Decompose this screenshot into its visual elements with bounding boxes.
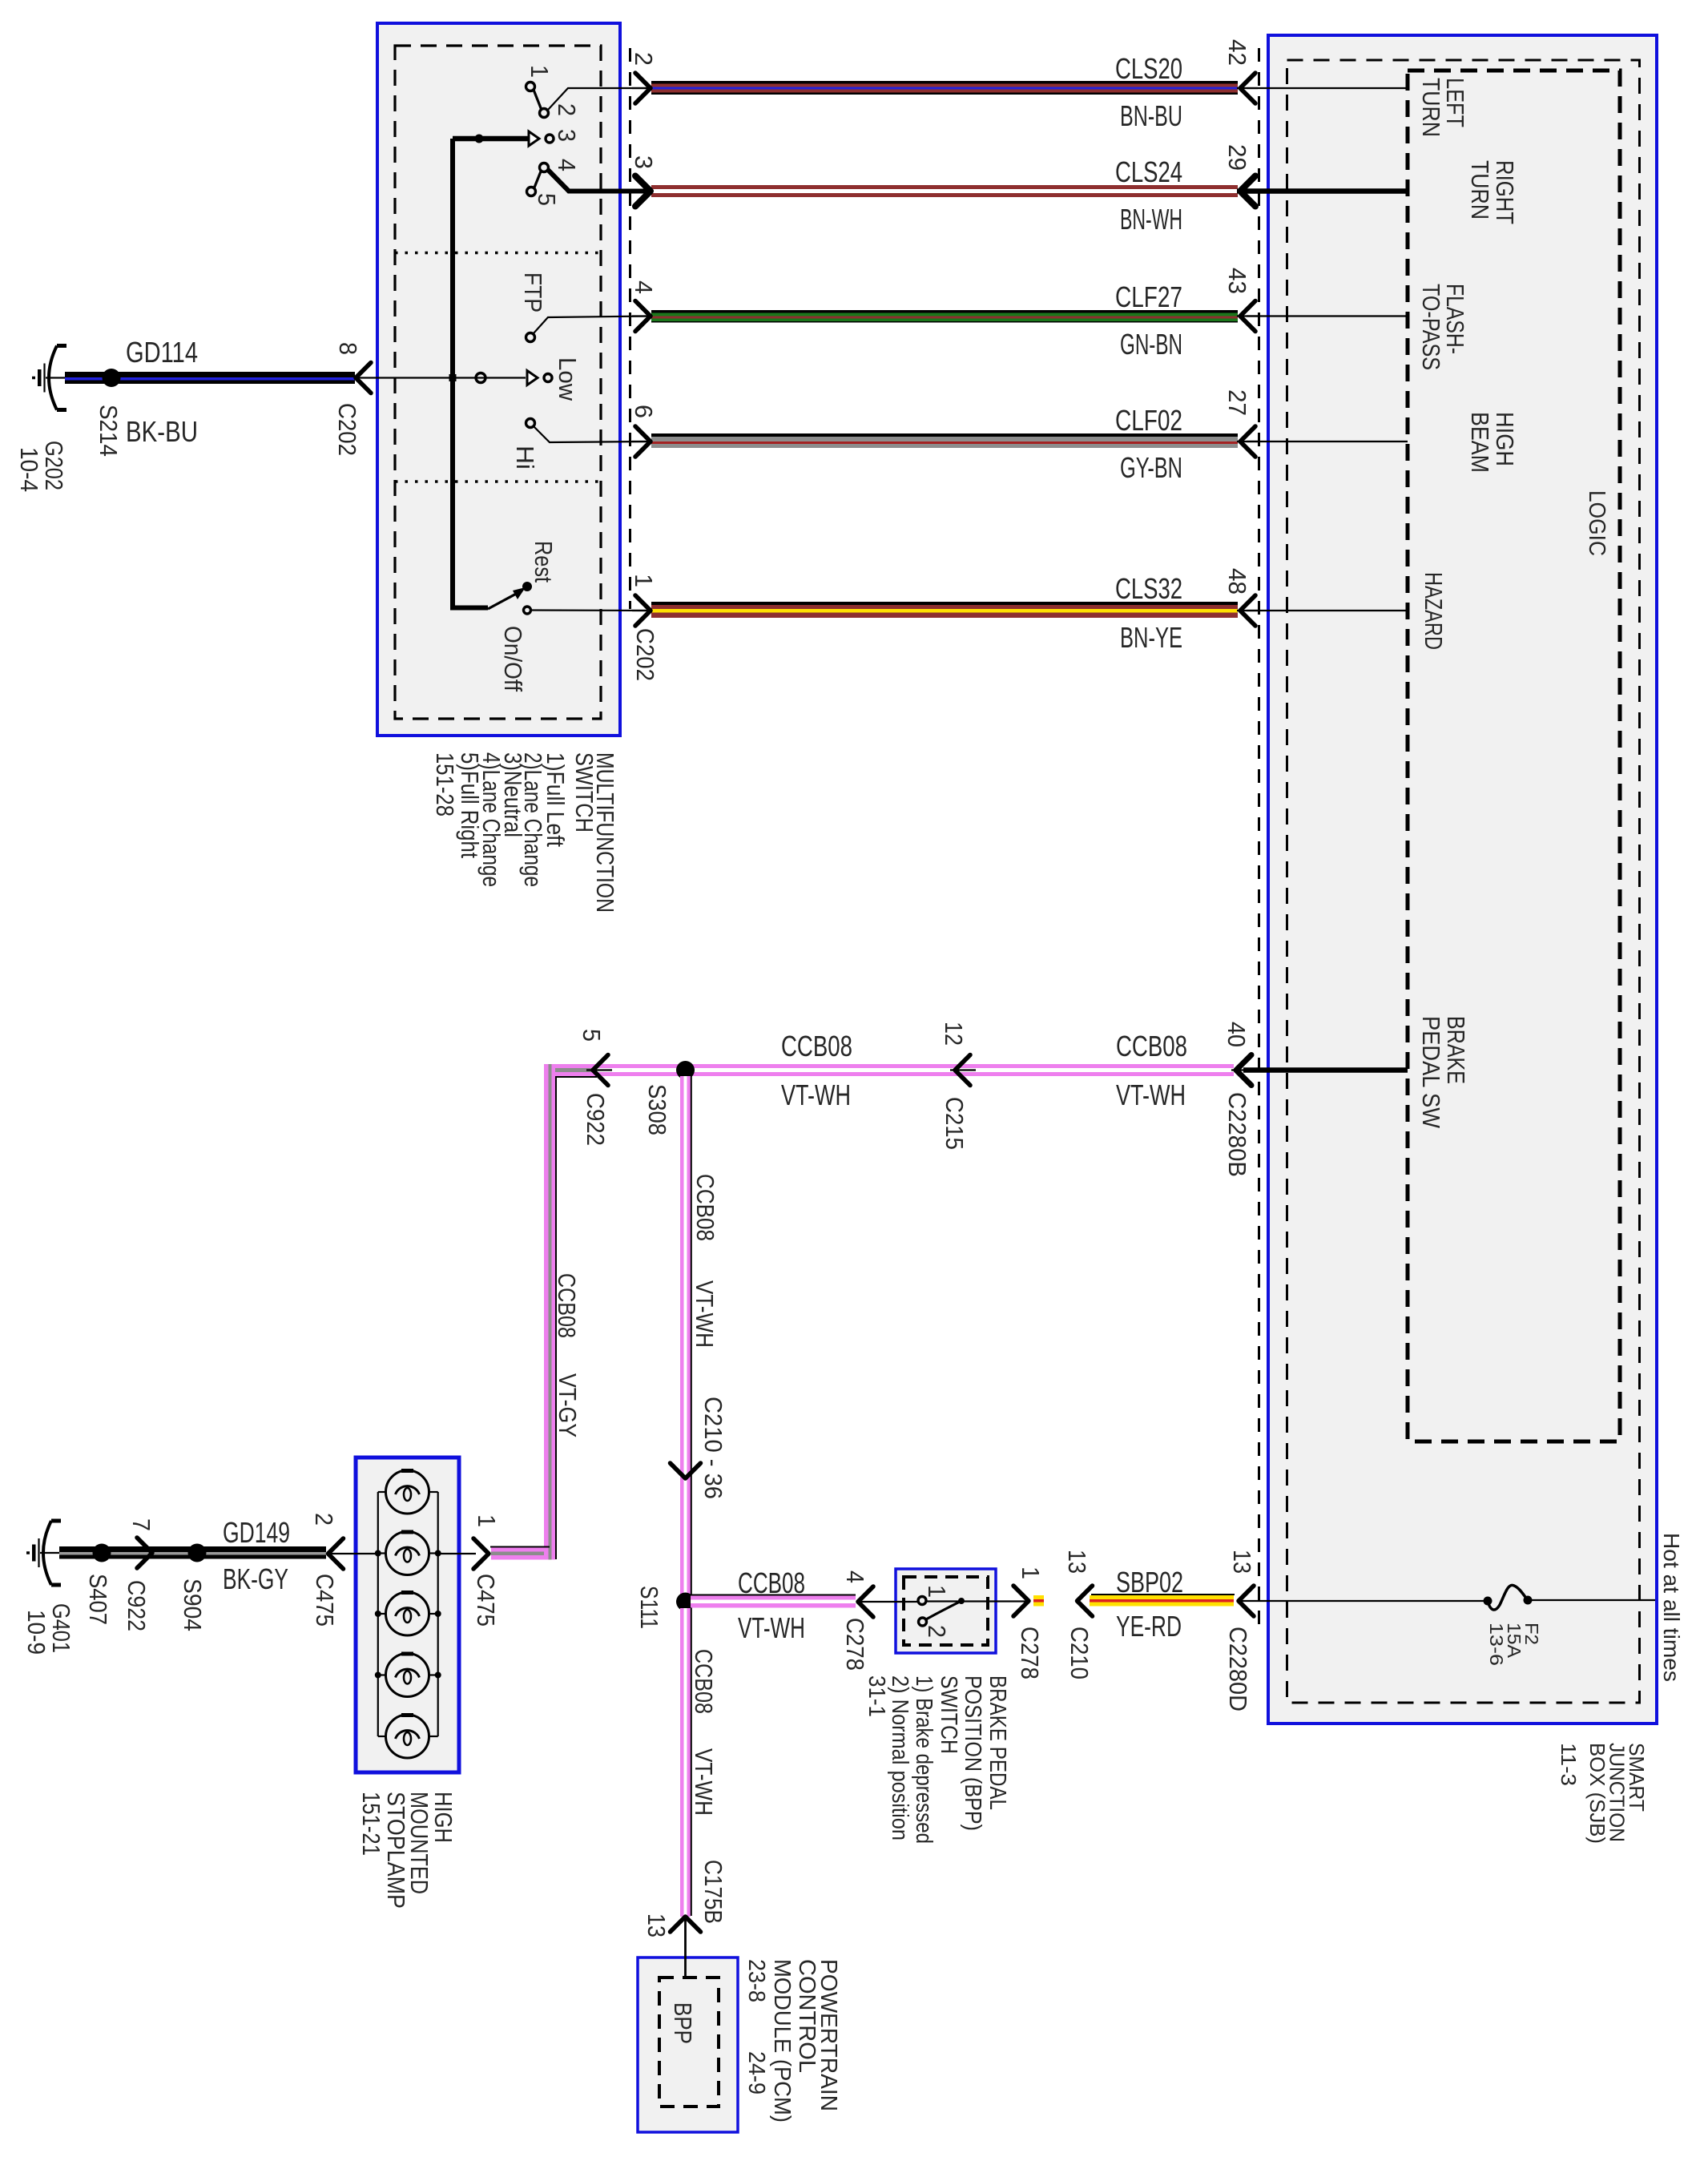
splice S214 [103, 369, 121, 387]
svg-text:1: 1 [1017, 1566, 1045, 1579]
svg-text:1: 1 [923, 1585, 951, 1598]
label C210 - 36 [699, 1397, 727, 1499]
Hi contact [526, 419, 535, 428]
wire from FTP contact to pin 4 [534, 316, 651, 334]
junction dot on contact 3 line [475, 135, 484, 143]
low beam pivot wire from pin 8 [370, 377, 526, 378]
splice S904 [188, 1544, 207, 1562]
svg-text:1) Brake depressed: 1) Brake depressed [911, 1675, 937, 1844]
BPP contact 1 label [923, 1585, 951, 1598]
FTP label [519, 272, 547, 312]
label Hi [511, 446, 539, 470]
svg-text:13-6: 13-6 [1486, 1623, 1507, 1666]
connector C202 pin 2 arrow [632, 73, 652, 103]
svg-text:BPP: BPP [669, 2002, 697, 2044]
pin 13 label (C175B) [643, 1913, 671, 1937]
vertical wire CCB08 VT-WH from S308 to S111 [680, 1076, 691, 1595]
stoplamp caption [357, 1792, 457, 1909]
PCM dashed outline [659, 1978, 719, 2107]
connector C215 pin 12 arrow [950, 1055, 976, 1086]
bus junction dots [375, 1550, 441, 1557]
label CLS32 [1115, 572, 1182, 605]
svg-text:C922: C922 [582, 1093, 610, 1146]
label BK-BU [126, 415, 198, 448]
FTP contact [526, 333, 535, 342]
connector C922 pin 5 arrow [586, 1055, 612, 1086]
svg-text:TURN: TURN [1466, 160, 1494, 220]
svg-text:Hot at all times: Hot at all times [1659, 1533, 1684, 1682]
label FLASH-TO-PASS [1417, 284, 1469, 370]
BPP switch dashed outline [904, 1577, 988, 1645]
connector C210 label [1065, 1627, 1094, 1679]
bus junction dots [375, 1611, 441, 1617]
connector C922 label (pin 5) [582, 1093, 610, 1146]
svg-text:CCB08: CCB08 [738, 1566, 805, 1599]
PCM caption [743, 1959, 841, 2123]
svg-text:BEAM: BEAM [1466, 412, 1494, 473]
bus junction dots [375, 1672, 441, 1679]
connector C2280 pin 29 arrow [1237, 176, 1258, 207]
svg-text:1: 1 [473, 1514, 501, 1527]
label VT-WH (S308 vertical) [691, 1280, 719, 1348]
svg-text:C475: C475 [472, 1574, 500, 1627]
pin 42 label [1223, 39, 1251, 66]
black edge along vertical VT-GY wire [555, 1076, 557, 1559]
connector C278 label (right) [1016, 1627, 1044, 1679]
svg-text:CLS24: CLS24 [1115, 155, 1182, 188]
svg-text:S308: S308 [643, 1084, 671, 1135]
contact 3 label [553, 129, 581, 142]
svg-text:Low: Low [554, 357, 582, 401]
svg-text:4: 4 [553, 159, 581, 171]
stoplamp left bus [377, 1492, 379, 1736]
multifunction switch dashed outline [395, 46, 601, 719]
powertrain control module box [638, 1957, 738, 2132]
bold vertical bus in multifunction switch [450, 139, 455, 611]
svg-text:CLF02: CLF02 [1115, 404, 1182, 437]
multifunction switch dotted separator 2 [395, 480, 601, 483]
BPP contact 2 label [923, 1625, 951, 1638]
label CCB08 (S111 row) [738, 1566, 805, 1599]
pin 1 label (C475) [473, 1514, 501, 1527]
pin 43 label [1223, 268, 1251, 294]
connector C215 label [941, 1097, 969, 1150]
connector C475 label (right) [472, 1574, 500, 1627]
connector C175B label [699, 1860, 727, 1924]
connector C210 pin 36 arrow [671, 1463, 701, 1478]
label CCB08 (vertical VT-GY) [553, 1273, 581, 1338]
svg-text:BK-GY: BK-GY [223, 1562, 288, 1595]
svg-text:S407: S407 [84, 1574, 112, 1625]
pin 40 label [1223, 1022, 1251, 1047]
lane change switch contact 4 [540, 163, 549, 172]
stoplamp right bus [437, 1492, 439, 1736]
turn signal switch contact 2 [540, 109, 549, 118]
svg-text:C175B: C175B [699, 1860, 727, 1924]
svg-text:C202: C202 [333, 403, 361, 456]
connector C475 label (left) [311, 1574, 339, 1627]
label VT-GY [554, 1373, 582, 1437]
svg-text:11-3: 11-3 [1557, 1743, 1581, 1786]
pin 27 label [1223, 389, 1251, 416]
connector C202 label (bottom) [631, 628, 659, 681]
connector C202 label (pin 8) [333, 403, 361, 456]
multifunction switch caption [431, 752, 619, 913]
wire through BPP to C278 pin 1 [927, 1600, 1025, 1602]
label LOGIC [1584, 490, 1609, 556]
label SBP02 [1116, 1566, 1183, 1599]
pin 8 label [334, 342, 362, 355]
label VT-WH (top run right) [1116, 1078, 1186, 1111]
fuse F2 labels [1486, 1623, 1542, 1666]
ground G202 [32, 346, 66, 410]
connector C2280D pin 13 arrow [1238, 1586, 1259, 1616]
pin 2 label (C475) [310, 1513, 338, 1526]
svg-text:VT-WH: VT-WH [781, 1078, 851, 1111]
label HIGH BEAM [1466, 412, 1519, 473]
splice S904 label [179, 1578, 207, 1631]
splice S214 label [95, 405, 123, 457]
connector C922 label (pin 7) [123, 1580, 151, 1631]
pin 7 label [127, 1518, 155, 1531]
svg-text:31-1: 31-1 [864, 1675, 889, 1717]
svg-text:S904: S904 [179, 1578, 207, 1631]
svg-text:CLS32: CLS32 [1115, 572, 1182, 605]
svg-text:C278: C278 [1016, 1627, 1044, 1679]
svg-text:C2280D: C2280D [1224, 1627, 1252, 1711]
connector C475 pin 2 arrow [327, 1538, 378, 1569]
svg-text:G202: G202 [40, 441, 68, 490]
svg-text:BRAKE: BRAKE [1442, 1016, 1470, 1084]
svg-text:5)Full Right: 5)Full Right [456, 752, 484, 858]
svg-text:2: 2 [923, 1625, 951, 1638]
label CCB08 (top run left) [781, 1030, 852, 1062]
connector C202 pin 3 arrow [632, 176, 652, 207]
connector C278 label (pin 4) [841, 1618, 869, 1671]
svg-text:5: 5 [533, 193, 561, 206]
connector C175B pin 13 arrow [671, 1917, 701, 1978]
svg-text:VT-WH: VT-WH [738, 1611, 805, 1644]
BPP switch arm [926, 1598, 965, 1619]
wire from On/Off contact to pin 1 [531, 609, 651, 611]
label Hot at all times [1659, 1533, 1684, 1682]
connector C202 pin 8 arrow [355, 363, 371, 393]
svg-text:BK-BU: BK-BU [126, 415, 198, 448]
svg-text:STOPLAMP: STOPLAMP [382, 1792, 410, 1909]
label Low [554, 357, 582, 401]
svg-text:BRAKE PEDAL: BRAKE PEDAL [985, 1675, 1010, 1810]
connector C278 pin 4 arrow [857, 1587, 918, 1617]
wire inside SJB [1247, 87, 1408, 89]
wire CLS24 BN-WH [651, 185, 1238, 197]
label CLS20 [1115, 52, 1182, 85]
connector C278 pin 1 arrow [1013, 1586, 1029, 1616]
svg-text:YE-RD: YE-RD [1116, 1610, 1182, 1643]
svg-text:Hi: Hi [511, 446, 539, 470]
svg-text:10-9: 10-9 [22, 1610, 50, 1655]
wire CCB08 VT-WH from S111 to BPP [691, 1596, 856, 1608]
label GY-BN [1120, 451, 1182, 484]
svg-text:7: 7 [127, 1518, 155, 1531]
svg-text:BN-YE: BN-YE [1120, 621, 1182, 654]
svg-text:CCB08: CCB08 [690, 1649, 718, 1714]
wire from fuse to SJB edge [1528, 1599, 1655, 1601]
label BN-YE [1120, 621, 1182, 654]
multifunction switch dotted separator 1 [395, 252, 601, 255]
contact 2 label [553, 103, 581, 116]
pin 4 label [630, 280, 658, 294]
svg-text:GD149: GD149 [223, 1516, 290, 1549]
ground G202 label [15, 441, 68, 492]
svg-text:S111: S111 [635, 1586, 663, 1629]
pin 6 label [630, 405, 658, 418]
svg-text:4: 4 [841, 1570, 869, 1583]
label VT-WH (lower vertical) [690, 1748, 718, 1816]
contact Rest dot [522, 582, 532, 591]
label CLF02 [1115, 404, 1182, 437]
connector C2280B label [1223, 1092, 1251, 1177]
svg-text:13: 13 [643, 1913, 671, 1937]
stoplamp bulb 1 [378, 1470, 438, 1514]
svg-text:CLS20: CLS20 [1115, 52, 1182, 85]
connector C2280 pin 27 arrow [1237, 426, 1258, 457]
LOGIC dashed box [1408, 71, 1620, 1441]
svg-text:FTP: FTP [519, 272, 547, 312]
label CCB08 (S308 vertical) [691, 1174, 719, 1241]
label CLS24 [1115, 155, 1182, 188]
hazard switch arm [488, 587, 526, 609]
pin 1 label (C278 right) [1017, 1566, 1045, 1579]
label BN-BU [1120, 99, 1182, 132]
splice S308 label [643, 1084, 671, 1135]
label GN-BN [1120, 328, 1182, 361]
label VT-WH (S111 row) [738, 1611, 805, 1644]
svg-text:CCB08: CCB08 [1116, 1030, 1187, 1062]
svg-text:C210: C210 [1065, 1627, 1094, 1679]
hazard switch corner [453, 606, 488, 611]
svg-text:CCB08: CCB08 [781, 1030, 852, 1062]
splice S111 [676, 1593, 695, 1611]
label LEFT TURN [1417, 78, 1469, 137]
connector C202 pin 1 arrow [632, 595, 652, 626]
label GD114 [126, 336, 198, 369]
connector C2280 dashed line [1258, 48, 1260, 1635]
smart junction box (SJB) [1268, 35, 1657, 1724]
wire GD149 BK-GY [59, 1546, 326, 1559]
fuse F2 [1484, 1585, 1533, 1610]
svg-text:48: 48 [1223, 568, 1251, 595]
wire inside SJB [1247, 441, 1408, 442]
svg-text:151-28: 151-28 [431, 752, 459, 816]
svg-text:2: 2 [553, 103, 581, 116]
pivot arrow contact 3 [529, 131, 539, 146]
label VT-WH (top run left) [781, 1078, 851, 1111]
label YE-RD [1116, 1610, 1182, 1643]
lane change switch contact 5 [527, 187, 536, 196]
svg-text:PEDAL SW: PEDAL SW [1417, 1016, 1445, 1129]
svg-text:Rest: Rest [530, 541, 558, 583]
black edge along lower vertical wire [691, 1608, 692, 1916]
wire GD114 BK-BU [65, 372, 355, 384]
ground G401 [26, 1521, 61, 1585]
black edge along elbow segment [544, 1076, 597, 1078]
svg-text:29: 29 [1223, 144, 1251, 171]
label BN-WH [1120, 203, 1182, 236]
svg-text:2: 2 [630, 52, 658, 66]
svg-text:13: 13 [1228, 1550, 1256, 1574]
svg-text:CCB08: CCB08 [691, 1174, 719, 1241]
svg-text:BN-BU: BN-BU [1120, 99, 1182, 132]
svg-text:23-8: 23-8 [743, 1959, 769, 2002]
svg-text:151-21: 151-21 [357, 1792, 385, 1856]
svg-text:GY-BN: GY-BN [1120, 451, 1182, 484]
contact 4 label [553, 159, 581, 171]
stoplamp bulb 4 [378, 1654, 438, 1697]
pin 29 label [1223, 144, 1251, 171]
svg-text:TO-PASS: TO-PASS [1417, 284, 1445, 370]
svg-text:C202: C202 [631, 628, 659, 681]
svg-text:CCB08: CCB08 [553, 1273, 581, 1338]
pin 2 label [630, 52, 658, 66]
wire SBP02 YE-RD segment 2 [1090, 1595, 1234, 1607]
connector C202 pin 6 arrow [632, 426, 652, 457]
svg-text:10-4: 10-4 [15, 447, 43, 492]
ground G401 label [22, 1603, 75, 1655]
svg-text:SWITCH: SWITCH [570, 752, 598, 833]
connector C202 pin 4 arrow [632, 301, 652, 332]
splice S111 label [635, 1586, 663, 1629]
svg-text:HAZARD: HAZARD [1420, 572, 1448, 650]
label On/Off [499, 626, 527, 691]
contact Low circle [544, 374, 552, 382]
bold brake pedal sw wire inside SJB [1243, 1067, 1408, 1073]
svg-text:C210 - 36: C210 - 36 [699, 1397, 727, 1499]
svg-text:LOGIC: LOGIC [1584, 490, 1609, 556]
label HAZARD [1420, 572, 1448, 650]
label BRAKE PEDAL SW [1417, 1016, 1470, 1129]
connector C2280B pin 40 arrow [1231, 1055, 1251, 1086]
vertical wire CCB08 VT-GY to stoplamp [544, 1064, 555, 1560]
junction square on bus [449, 374, 457, 381]
svg-text:13: 13 [1063, 1550, 1091, 1574]
svg-text:VT-WH: VT-WH [691, 1280, 719, 1348]
svg-text:C922: C922 [123, 1580, 151, 1631]
svg-text:SBP02: SBP02 [1116, 1566, 1183, 1599]
splice S407 [93, 1544, 111, 1562]
svg-text:C2280B: C2280B [1223, 1092, 1251, 1177]
connector C2280D label [1224, 1627, 1252, 1711]
vertical wire CCB08 VT-WH from S111 to PCM [680, 1608, 691, 1917]
svg-text:VT-GY: VT-GY [554, 1373, 582, 1437]
svg-text:BOX (SJB): BOX (SJB) [1585, 1743, 1609, 1844]
stoplamp bulb 5 [378, 1715, 438, 1758]
black edge along S308 vertical wire [691, 1076, 692, 1595]
connector C2280 pin 43 arrow [1237, 301, 1258, 332]
BPP contact 1 [918, 1597, 926, 1605]
svg-text:TURN: TURN [1417, 78, 1445, 137]
label BPP inside PCM [669, 2002, 697, 2044]
svg-text:3: 3 [553, 129, 581, 142]
svg-text:40: 40 [1223, 1022, 1251, 1047]
multifunction switch box [377, 23, 620, 736]
label RIGHT TURN [1466, 160, 1519, 224]
label BK-GY [223, 1562, 288, 1595]
label GD149 [223, 1516, 290, 1549]
contact On/Off circle [524, 607, 531, 614]
wire CCB08 VT-WH main run [597, 1064, 1234, 1076]
svg-text:C278: C278 [841, 1618, 869, 1671]
wire CLS20 BN-BU [651, 81, 1238, 95]
contact 1 label [526, 65, 554, 78]
svg-text:VT-WH: VT-WH [690, 1748, 718, 1816]
label Rest [530, 541, 558, 583]
inline circle on low beam line [476, 373, 485, 383]
svg-text:VT-WH: VT-WH [1116, 1078, 1186, 1111]
pin 12 label [940, 1022, 968, 1046]
connector C210 pin 13 arrow [1078, 1586, 1093, 1616]
svg-text:27: 27 [1223, 389, 1251, 416]
svg-text:RIGHT: RIGHT [1491, 160, 1519, 224]
svg-text:GD114: GD114 [126, 336, 198, 369]
svg-text:5: 5 [578, 1029, 606, 1042]
turn switch arm 1-2 [534, 90, 542, 109]
stoplamp bulb 3 [378, 1592, 438, 1635]
wire CCB08 VT-GY elbow segment [544, 1064, 597, 1076]
svg-text:BN-WH: BN-WH [1120, 203, 1182, 236]
wire CCB08 VT-GY bottom segment to C475 [491, 1548, 544, 1560]
svg-text:HIGH: HIGH [1491, 412, 1519, 466]
svg-text:3: 3 [630, 155, 658, 169]
svg-text:On/Off: On/Off [499, 626, 527, 691]
svg-text:G401: G401 [47, 1603, 75, 1653]
black edge along S111 horizontal wire [691, 1595, 856, 1596]
wire inside SJB [1247, 188, 1408, 194]
BPP caption [864, 1675, 1010, 1844]
svg-text:1: 1 [630, 574, 658, 587]
high mounted stoplamp box [356, 1457, 459, 1772]
connector C2280 pin 48 arrow [1237, 595, 1258, 626]
svg-text:C215: C215 [941, 1097, 969, 1150]
svg-text:2: 2 [310, 1513, 338, 1526]
label SMART JUNCTION BOX (SJB) 11-3 [1557, 1743, 1649, 1844]
black edge along bottom segment [490, 1546, 550, 1548]
wire inside SJB [1247, 610, 1408, 611]
svg-text:42: 42 [1223, 39, 1251, 66]
connector C922 pin 7 arrow [137, 1538, 152, 1568]
wire from Hi contact to pin 6 [534, 426, 651, 442]
splice S308 [676, 1061, 695, 1079]
stoplamp bulb 2 [378, 1532, 438, 1575]
svg-text:CLF27: CLF27 [1115, 280, 1182, 313]
svg-text:1: 1 [526, 65, 554, 78]
SJB inner dashed outline [1287, 60, 1640, 1703]
pin 1 label [630, 574, 658, 587]
svg-text:6: 6 [630, 405, 658, 418]
svg-text:S214: S214 [95, 405, 123, 457]
BPP contact 2 [919, 1618, 927, 1626]
svg-text:SWITCH: SWITCH [936, 1675, 961, 1754]
lane change pivot contact 3 bold line [453, 136, 530, 142]
svg-text:MODULE (PCM): MODULE (PCM) [769, 1959, 795, 2123]
connector C202 dashed line [629, 48, 631, 609]
splice S407 label [84, 1574, 112, 1625]
wire inside SJB [1247, 315, 1408, 316]
svg-text:C475: C475 [311, 1574, 339, 1627]
pin 13 label (C210) [1063, 1550, 1091, 1574]
label CCB08 (top run right) [1116, 1030, 1187, 1062]
pin 5 label [578, 1029, 606, 1042]
svg-text:24-9: 24-9 [743, 2051, 769, 2095]
